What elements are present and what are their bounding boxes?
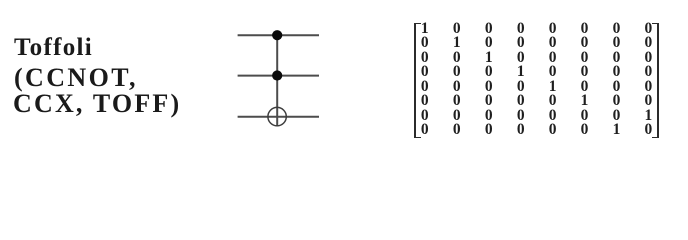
matrix row 1 bbox=[0, 20, 1, 22]
vertical connector wire bbox=[276, 35, 278, 126]
control dot on q0 bbox=[272, 30, 282, 40]
control dot on q1 bbox=[272, 70, 282, 80]
gate name label line 2 bbox=[14, 65, 138, 91]
matrix right bracket bbox=[652, 23, 659, 139]
matrix row 8 bbox=[0, 121, 1, 123]
matrix row 7 bbox=[0, 107, 1, 109]
matrix row 4 bbox=[0, 63, 1, 65]
matrix left bracket bbox=[414, 23, 421, 139]
wire q1 bbox=[238, 75, 319, 77]
matrix row 2 bbox=[0, 34, 1, 36]
circuit schematic svg bbox=[0, 0, 688, 156]
wire q2 bbox=[238, 116, 319, 118]
matrix row 3 bbox=[0, 49, 1, 51]
wire q0 bbox=[238, 34, 319, 36]
target XOR circle on q2 bbox=[268, 107, 286, 125]
gate name label line 3 bbox=[13, 91, 181, 117]
gate name label line 1 bbox=[14, 35, 93, 60]
matrix row 5 bbox=[0, 78, 1, 80]
matrix row 6 bbox=[0, 92, 1, 94]
